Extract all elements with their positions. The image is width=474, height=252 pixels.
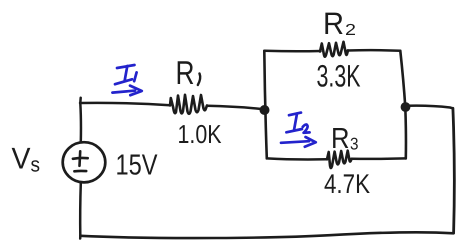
wire: source top to top-left corner, with overshoot tick [79, 98, 82, 143]
voltage source Vs circle [63, 142, 106, 182]
resistor R1 [170, 95, 207, 114]
resistor R3 [327, 151, 352, 168]
svg-text:2: 2 [345, 22, 356, 39]
svg-text:3.3K: 3.3K [317, 59, 361, 94]
resistor R2 [320, 42, 348, 57]
svg-text:R: R [323, 6, 344, 41]
wire: node B to outer right corner [407, 106, 453, 109]
svg-text:1.0K: 1.0K [178, 119, 223, 149]
svg-text:R: R [331, 123, 350, 155]
wire: bottom branch right segment [352, 157, 406, 160]
wire: right vertical of parallel section [400, 51, 406, 159]
current arrow I1 [112, 65, 141, 95]
wire: top branch right segment [348, 49, 401, 52]
svg-text:s: s [31, 154, 41, 177]
node B junction dot [401, 102, 411, 112]
wire: top horizontal, source corner to R1 [80, 103, 170, 105]
minus sign inside source [74, 170, 86, 173]
svg-text:V: V [12, 143, 31, 176]
wire: top branch left segment [265, 50, 321, 53]
wire: outer right vertical [453, 108, 454, 233]
node A junction dot [260, 105, 270, 115]
wire: R1 to node A [207, 106, 262, 109]
svg-text:3: 3 [350, 135, 359, 154]
label R1 subscript 1 [198, 74, 200, 86]
wire: source bottom to bottom-left corner [79, 183, 82, 239]
svg-text:R: R [176, 54, 195, 91]
svg-text:4.7K: 4.7K [324, 169, 370, 199]
svg-text:15V: 15V [116, 150, 159, 182]
wire: bottom branch left segment [267, 158, 327, 159]
plus sign inside source [78, 151, 81, 166]
wire: left vertical of parallel section [264, 51, 267, 159]
wire: bottom return [80, 232, 453, 238]
current arrow I2 [281, 113, 316, 147]
